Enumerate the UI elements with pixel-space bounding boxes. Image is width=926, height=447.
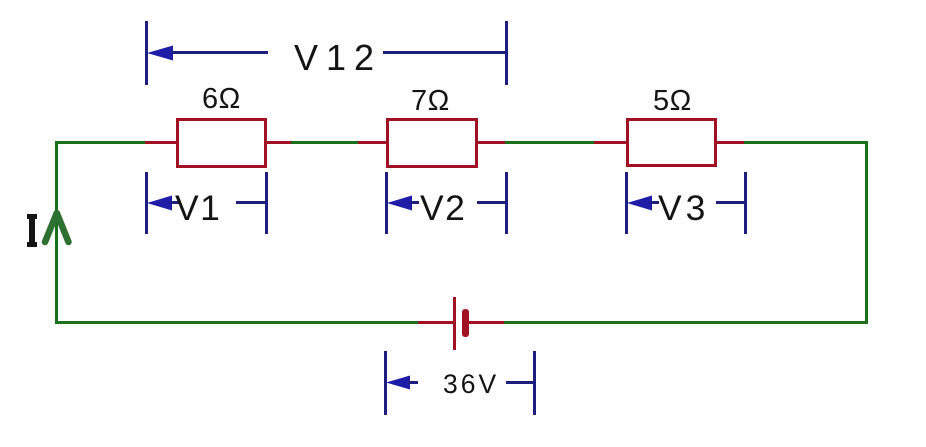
wire: red pin right of R2 — [478, 141, 505, 144]
wire: left vertical green wire — [55, 141, 58, 324]
wire: red pin left of R1 — [145, 141, 176, 144]
label I: stem — [29, 214, 35, 247]
dimension V1: right line — [236, 201, 267, 204]
dimension V12: left line — [171, 51, 268, 54]
label 7 ohms — [411, 87, 450, 116]
wire: right vertical green wire — [865, 141, 868, 324]
wire: red pin right of R1 — [267, 141, 291, 144]
wire: top green segment between R2 and R3 — [505, 141, 594, 144]
dimension V2: left tick — [385, 172, 388, 234]
current arrow chevron on left wire — [40, 207, 75, 248]
dimension V2: right tick — [505, 172, 508, 234]
dimension V12: arrowhead — [147, 45, 173, 61]
battery V source: long plate — [453, 297, 456, 350]
dimension 36V: right line — [506, 381, 534, 384]
dimension V3: left tick — [625, 172, 628, 234]
wire: top green segment left of R1 — [55, 141, 146, 144]
resistor R1 6 ohm box — [176, 118, 267, 168]
dimension 36V: arrow tail — [408, 381, 418, 384]
label V1 — [175, 191, 221, 227]
label 36V — [443, 371, 499, 398]
wire: bottom green segment right of battery — [504, 321, 868, 324]
label V12 — [294, 40, 382, 76]
wire: red pin right of battery — [469, 321, 504, 324]
dimension V1: left tick — [145, 172, 148, 234]
resistor R2 7 ohm box — [386, 118, 478, 168]
label I: top serif bar — [27, 214, 37, 219]
battery V source: short thick plate — [462, 309, 469, 337]
label V3 — [658, 191, 709, 227]
dimension V2: right line — [477, 201, 508, 204]
dimension V2: arrow tail — [410, 201, 419, 204]
wire: red pin left of battery — [418, 321, 454, 324]
wire: bottom green segment left of battery — [55, 321, 418, 324]
dimension 36V: right tick — [533, 351, 536, 415]
dimension V12: right line — [383, 51, 506, 54]
dimension V3: right line — [716, 201, 745, 204]
dimension V3: arrow tail — [650, 201, 659, 204]
dimension V3: right tick — [744, 172, 747, 234]
dimension V3: arrowhead — [627, 195, 652, 211]
wire: red pin left of R2 — [358, 141, 386, 144]
wire: red pin right of R3 — [717, 141, 744, 144]
wire: top green segment right of R3 — [744, 141, 868, 144]
dimension 36V: arrowhead — [386, 375, 410, 390]
dimension V2: arrowhead — [387, 195, 412, 211]
dimension V12: right tick — [505, 21, 508, 85]
label V2 — [420, 191, 466, 227]
label 5 ohms — [653, 87, 692, 116]
dimension V1: right tick — [265, 172, 268, 234]
dimension 36V: left tick — [384, 351, 387, 415]
wire: red pin left of R3 — [594, 141, 626, 144]
resistor R3 5 ohm box — [626, 118, 717, 167]
dimension V12: left tick — [145, 21, 148, 85]
wire: top green segment between R1 and R2 — [291, 141, 358, 144]
label 6 ohms — [202, 85, 241, 114]
dimension V1: arrowhead — [147, 195, 172, 211]
dimension V1: arrow tail — [170, 201, 179, 204]
label I: bottom serif bar — [27, 242, 37, 247]
